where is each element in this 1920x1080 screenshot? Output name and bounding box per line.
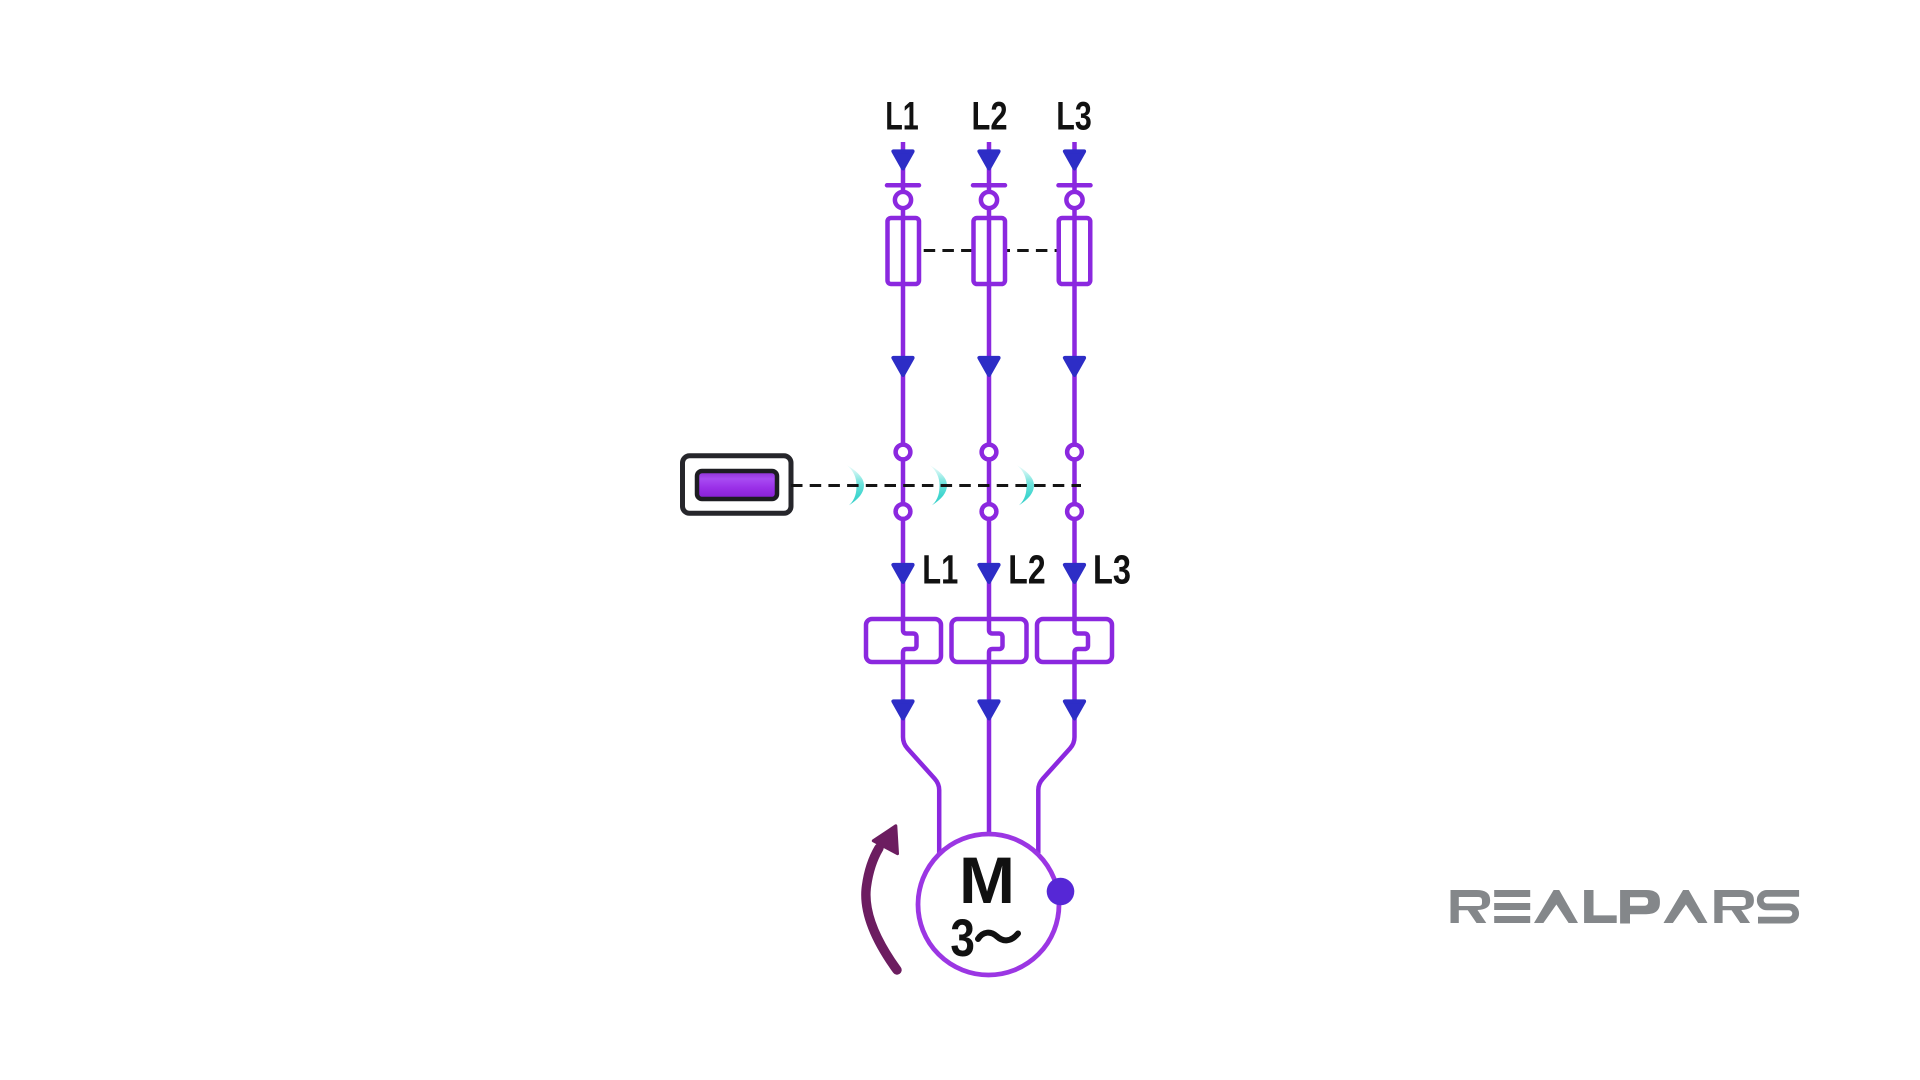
logo letter R1 [1451,890,1491,923]
arrow row1 L3 [1065,151,1084,168]
contact circle L1 upper [896,445,911,460]
wire L1 phase (with overload zigzag and bend to motor) [903,142,939,853]
wire L2 phase [989,142,1003,832]
contact circle L3 upper [1067,445,1082,460]
contact circle L2 lower [982,504,997,519]
contact circle L2 upper [982,445,997,460]
motor shaft dot [1047,878,1075,906]
overload relay OL3 [1037,619,1112,662]
arrow row2 L3 [1065,358,1084,375]
overload relay OL1 [866,619,941,662]
contactor arc 3 [1017,465,1034,505]
svg-text:3: 3 [950,909,975,968]
logo letter A2 [1664,890,1708,923]
arrow row1 L2 [979,151,998,168]
logo letter L [1584,890,1617,923]
fuse F3 [1059,218,1091,284]
rotation arrow [866,826,898,970]
arrow row2 L1 [893,358,912,375]
svg-text:L3: L3 [1093,546,1131,592]
wire L3 phase [1038,142,1088,853]
arrow row3 L3 [1065,565,1084,582]
arrow row1 L1 [893,151,912,168]
logo letter R2 [1714,890,1754,923]
arrow row3 L1 [893,565,912,582]
contact circle L3 lower [1067,504,1082,519]
svg-text:L2: L2 [972,95,1008,139]
contact circle L1 lower [896,504,911,519]
arrow row4 L2 [979,701,998,718]
disconnect tick L1 [887,183,919,188]
overload relay OL2 [952,619,1027,662]
disconnect tick L3 [1059,183,1091,188]
disconnect circle L3 [1066,192,1082,208]
contactor arc 2 [930,465,947,505]
disconnect circle L1 [895,192,911,208]
svg-text:L1: L1 [922,546,958,592]
disconnect circle L2 [981,192,997,208]
logo letter P [1620,890,1660,924]
logo letter A1 [1534,890,1578,923]
arrow row4 L3 [1065,701,1084,718]
fuse F1 [888,218,920,284]
logo letter S [1758,893,1799,920]
disconnect tick L2 [973,183,1005,188]
arrow row2 L2 [979,358,998,375]
fuse F2 [974,218,1006,284]
arrow row3 L2 [979,565,998,582]
contactor coil box [683,456,792,514]
REALPARS logo [1451,890,1800,924]
svg-text:L1: L1 [885,95,919,139]
contactor arc 1 [847,465,864,505]
svg-text:L2: L2 [1008,546,1045,592]
svg-text:M: M [959,843,1015,917]
motor circle M1 [918,834,1059,975]
fuse dashed link [905,249,1073,252]
arrow row4 L1 [893,701,912,718]
contactor dashed link [791,484,1081,487]
logo letter E [1494,890,1530,923]
svg-text:L3: L3 [1056,95,1092,139]
